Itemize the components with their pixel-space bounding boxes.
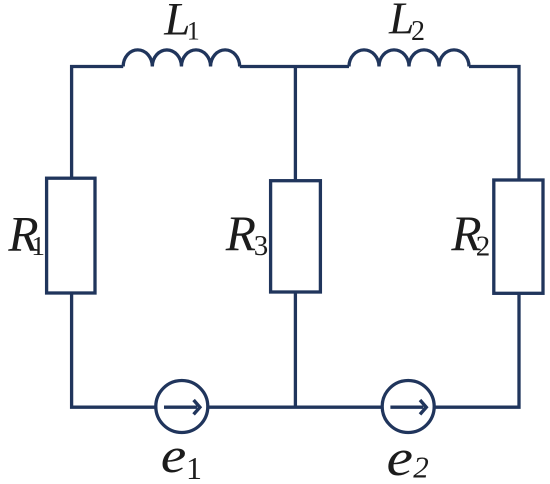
svg-text:2: 2: [476, 230, 491, 262]
svg-text:1: 1: [187, 16, 200, 45]
resistor R3: [271, 181, 321, 292]
wire top-right corner and right vertical upper: [469, 67, 519, 181]
wire bottom span between e1 and e2: [208, 406, 381, 409]
svg-text:e: e: [161, 427, 187, 483]
source e2: [382, 381, 434, 433]
inductor L1: [123, 50, 239, 67]
label e1: [161, 427, 202, 484]
svg-text:2: 2: [411, 16, 425, 47]
label L1: [163, 0, 200, 45]
label L2: [388, 0, 425, 47]
svg-text:1: 1: [31, 230, 45, 261]
svg-text:1: 1: [186, 450, 202, 484]
wire top span between L1 and L2: [240, 65, 349, 68]
label R1: [7, 207, 45, 262]
wire middle vertical upper: [294, 67, 297, 181]
wire left vertical lower and bottom-left corner: [72, 293, 156, 407]
label R3: [225, 206, 269, 262]
resistor R1: [47, 178, 95, 293]
svg-text:R: R: [225, 206, 256, 261]
label R2: [450, 206, 490, 262]
svg-text:2: 2: [413, 449, 429, 484]
wire right vertical lower and bottom-right corner: [435, 293, 519, 407]
source e1: [156, 381, 208, 433]
inductor L2: [349, 50, 469, 67]
label e2: [387, 430, 429, 484]
wire top-left corner and left vertical upper: [72, 67, 124, 179]
svg-text:3: 3: [254, 230, 268, 262]
resistor R2: [494, 180, 543, 293]
svg-text:e: e: [387, 430, 414, 484]
wire middle vertical lower: [294, 292, 297, 407]
